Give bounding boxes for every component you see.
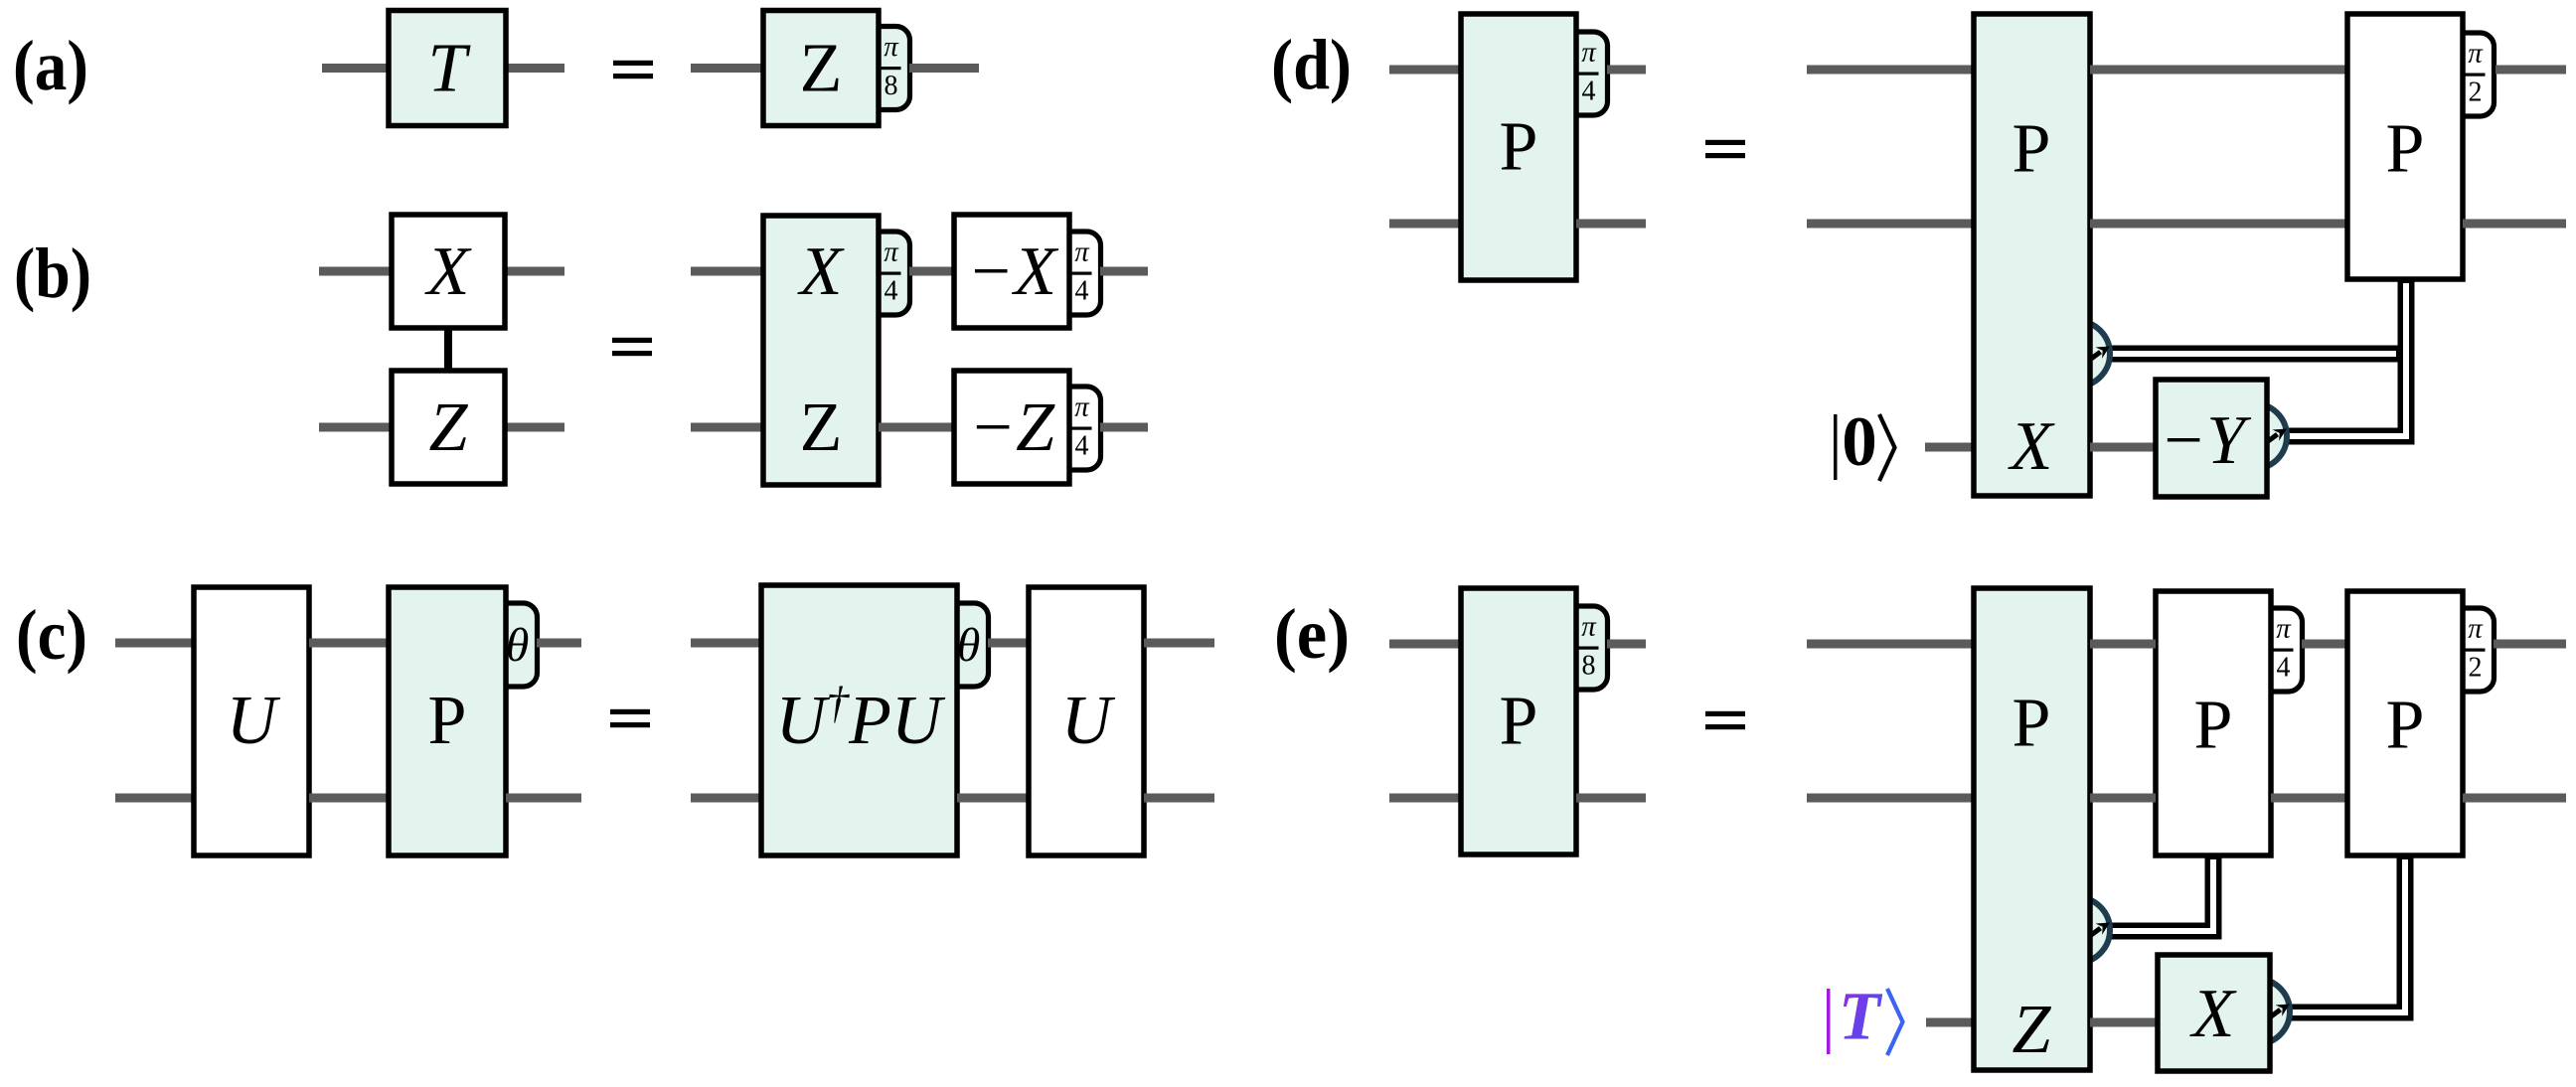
svg-text:T: T (428, 30, 472, 106)
svg-text:(b): (b) (14, 233, 91, 313)
svg-text:π: π (884, 31, 899, 63)
svg-text:P: P (2386, 110, 2425, 187)
svg-text:T: T (1839, 979, 1883, 1054)
svg-text:4: 4 (1075, 431, 1089, 462)
svg-text:π: π (1581, 36, 1597, 68)
svg-text:P: P (2386, 687, 2425, 763)
svg-text:2: 2 (2469, 653, 2483, 684)
svg-text:4: 4 (2277, 653, 2291, 684)
svg-text:π: π (2468, 612, 2484, 644)
svg-text:X: X (424, 233, 473, 310)
svg-text:(d): (d) (1271, 25, 1352, 104)
svg-text:0: 0 (1842, 403, 1877, 481)
svg-text:X: X (2189, 976, 2238, 1052)
svg-text:U†PU: U†PU (776, 677, 946, 759)
svg-text:8: 8 (885, 71, 898, 101)
svg-text:4: 4 (1075, 276, 1089, 307)
svg-text:−Y: −Y (2160, 402, 2252, 479)
svg-text:2: 2 (2469, 78, 2483, 108)
svg-text:Z: Z (2012, 992, 2052, 1068)
svg-text:π: π (1581, 610, 1597, 642)
svg-text:π: π (1074, 390, 1090, 422)
svg-text:Z: Z (429, 389, 469, 466)
svg-text:π: π (884, 235, 899, 267)
svg-text:−Z: −Z (969, 389, 1055, 466)
svg-text:U: U (227, 683, 281, 759)
svg-text:θ: θ (957, 619, 981, 672)
svg-text:P: P (2012, 110, 2051, 187)
svg-text:(e): (e) (1274, 594, 1350, 674)
svg-text:P: P (1500, 683, 1538, 759)
svg-text:P: P (2012, 685, 2051, 761)
svg-text:U: U (1061, 683, 1116, 759)
svg-text:8: 8 (1582, 651, 1596, 682)
svg-text:π: π (2276, 612, 2292, 644)
svg-text:4: 4 (1582, 77, 1596, 107)
svg-text:Z: Z (800, 389, 843, 466)
svg-text:P: P (428, 683, 467, 759)
svg-text:X: X (2008, 408, 2056, 485)
svg-text:4: 4 (885, 276, 898, 307)
svg-text:π: π (1074, 235, 1090, 267)
svg-text:θ: θ (506, 619, 530, 672)
svg-text:P: P (2194, 687, 2233, 763)
svg-text:X: X (797, 233, 846, 310)
svg-text:Z: Z (800, 30, 843, 106)
svg-text:π: π (2468, 37, 2484, 69)
svg-text:(c): (c) (16, 595, 87, 675)
svg-text:−X: −X (967, 233, 1059, 310)
svg-text:(a): (a) (13, 26, 88, 105)
svg-text:P: P (1500, 108, 1538, 185)
